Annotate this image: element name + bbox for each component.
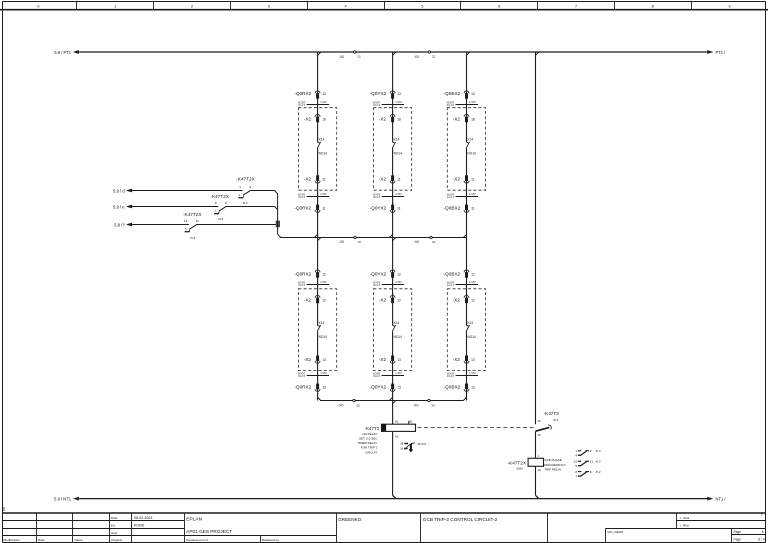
svg-text:5: 5 — [3, 507, 6, 512]
svg-text:Date: Date — [111, 516, 118, 520]
svg-text:/6.3: /6.3 — [553, 418, 558, 422]
svg-text:12: 12 — [322, 272, 326, 276]
svg-text:-Q0YX2: -Q0YX2 — [370, 384, 387, 389]
svg-text:1.5/M: 1.5/M — [395, 280, 402, 284]
svg-text:06-02-2023: 06-02-2023 — [134, 516, 152, 520]
svg-text:AP01 GES PROJECT: AP01 GES PROJECT — [186, 529, 232, 534]
svg-text:11: 11 — [196, 219, 199, 223]
svg-text:EPLAN: EPLAN — [186, 517, 202, 523]
svg-text:12: 12 — [574, 459, 578, 463]
svg-text:13: 13 — [471, 385, 475, 389]
svg-text:Date: Date — [38, 538, 45, 542]
svg-text:-K47T2: -K47T2 — [365, 426, 380, 431]
svg-text:4G1.5: 4G1.5 — [447, 374, 455, 378]
svg-text:DISCREPANCY: DISCREPANCY — [544, 463, 565, 467]
svg-text:-Q0RX2: -Q0RX2 — [294, 205, 311, 210]
svg-text:= GN1: = GN1 — [680, 516, 690, 520]
svg-text:13: 13 — [322, 358, 326, 362]
svg-text:PT1 /: PT1 / — [716, 50, 727, 55]
svg-text:1.5/M: 1.5/M — [469, 371, 476, 375]
svg-text:-X2: -X2 — [379, 116, 387, 121]
svg-text:/6.3: /6.3 — [596, 449, 601, 453]
svg-text:-X0: -X0 — [339, 55, 345, 59]
svg-text:K14: K14 — [319, 138, 325, 142]
svg-text:15 /6.6: 15 /6.6 — [417, 442, 426, 446]
svg-text:23: 23 — [432, 240, 436, 244]
svg-text:13: 13 — [397, 385, 401, 389]
svg-text:5.9 / PT1: 5.9 / PT1 — [54, 50, 71, 55]
svg-text:+ RNx: + RNx — [680, 523, 690, 527]
svg-text:FOR TRIP 2: FOR TRIP 2 — [361, 446, 378, 450]
svg-text:4G1.5: 4G1.5 — [298, 283, 306, 287]
svg-text:Replacement of: Replacement of — [186, 538, 208, 542]
svg-text:1.5/M: 1.5/M — [395, 100, 402, 104]
svg-text:-X2: -X2 — [304, 116, 312, 121]
svg-text:/6.2: /6.2 — [596, 470, 601, 474]
svg-text:Page: Page — [734, 538, 742, 542]
svg-text:1.5/M: 1.5/M — [469, 280, 476, 284]
svg-text:12: 12 — [322, 298, 326, 302]
svg-text:DIC_bla081: DIC_bla081 — [608, 530, 624, 534]
svg-text:11: 11 — [397, 178, 401, 182]
svg-text:18: 18 — [322, 117, 326, 121]
svg-text:13: 13 — [471, 358, 475, 362]
svg-text:-X0: -X0 — [413, 404, 419, 408]
svg-text:-Q0BX2: -Q0BX2 — [444, 205, 461, 210]
svg-text:9: 9 — [225, 201, 227, 205]
svg-text:11: 11 — [471, 178, 475, 182]
svg-text:TIMER RELAY: TIMER RELAY — [358, 441, 378, 445]
svg-text:16: 16 — [537, 433, 541, 437]
svg-text:1.5/M: 1.5/M — [320, 100, 327, 104]
svg-text:-X0: -X0 — [339, 240, 345, 244]
svg-text:-X2: -X2 — [304, 297, 312, 302]
svg-text:K14: K14 — [319, 321, 325, 325]
svg-text:TRIP RELAY: TRIP RELAY — [544, 467, 561, 471]
svg-text:1: 1 — [239, 185, 241, 189]
svg-text:-X2: -X2 — [304, 357, 312, 362]
svg-text:-Q0YX2: -Q0YX2 — [370, 205, 387, 210]
svg-text:4G1.5: 4G1.5 — [373, 195, 381, 199]
svg-text:13: 13 — [397, 92, 401, 96]
svg-text:K14: K14 — [394, 321, 400, 325]
svg-text:-X2: -X2 — [304, 177, 312, 182]
svg-text:/6.6: /6.6 — [190, 236, 195, 240]
svg-text:K14: K14 — [468, 138, 474, 142]
svg-text:13: 13 — [322, 92, 326, 96]
svg-text:/6.6: /6.6 — [243, 201, 248, 205]
svg-text:Page: Page — [734, 530, 742, 534]
svg-text:5.9 / e: 5.9 / e — [113, 204, 125, 209]
svg-text:-K47T2X: -K47T2X — [183, 212, 202, 217]
svg-text:-Q0YX2: -Q0YX2 — [370, 271, 387, 276]
svg-text:-K47T2X: -K47T2X — [508, 460, 527, 465]
svg-text:13: 13 — [397, 358, 401, 362]
svg-text:Ed.: Ed. — [111, 523, 116, 527]
svg-text:-X0: -X0 — [338, 404, 344, 408]
svg-text:1.5/M: 1.5/M — [469, 100, 476, 104]
svg-text:B1: B1 — [409, 419, 413, 423]
svg-text:NO14: NO14 — [394, 335, 403, 339]
svg-text:13: 13 — [471, 92, 475, 96]
svg-text:4G1.5: 4G1.5 — [447, 283, 455, 287]
svg-text:18: 18 — [471, 117, 475, 121]
svg-text:8: 8 — [215, 201, 217, 205]
svg-text:Original: Original — [111, 538, 122, 542]
svg-text:Name: Name — [75, 538, 84, 542]
svg-text:NO14: NO14 — [468, 152, 477, 156]
svg-text:15: 15 — [537, 419, 541, 423]
svg-text:11: 11 — [397, 206, 401, 210]
svg-text:K14: K14 — [468, 321, 474, 325]
svg-text:-X2: -X2 — [453, 297, 461, 302]
svg-text:10: 10 — [537, 468, 541, 472]
svg-text:4G1.5: 4G1.5 — [447, 103, 455, 107]
svg-text:K14: K14 — [394, 138, 400, 142]
svg-text:4G1.5: 4G1.5 — [298, 103, 306, 107]
svg-text:20: 20 — [357, 403, 361, 407]
svg-text:-K47T2: -K47T2 — [544, 411, 560, 416]
svg-text:18: 18 — [400, 442, 404, 446]
svg-text:1.5/M: 1.5/M — [469, 192, 476, 196]
svg-text:-X2: -X2 — [453, 177, 461, 182]
svg-text:-K47T2X: -K47T2X — [210, 194, 229, 199]
svg-text:1.5/M: 1.5/M — [395, 192, 402, 196]
svg-text:18: 18 — [397, 117, 401, 121]
svg-text:A1: A1 — [395, 420, 399, 424]
svg-text:GREENKO: GREENKO — [338, 517, 362, 522]
svg-text:-X2: -X2 — [379, 177, 387, 182]
svg-text:CIRCUIT: CIRCUIT — [365, 450, 377, 454]
svg-text:/6.6: /6.6 — [218, 217, 223, 221]
svg-text:NT1 /: NT1 / — [716, 496, 727, 501]
svg-text:-X2: -X2 — [453, 357, 461, 362]
svg-text:7: 7 — [761, 511, 764, 516]
svg-text:4G1.5: 4G1.5 — [447, 195, 455, 199]
svg-text:-Q0RX2: -Q0RX2 — [294, 384, 311, 389]
svg-text:-Q0BX2: -Q0BX2 — [444, 271, 461, 276]
svg-text:12: 12 — [397, 298, 401, 302]
svg-text:24: 24 — [432, 403, 436, 407]
svg-text:12: 12 — [184, 219, 188, 223]
svg-text:5.9 / d: 5.9 / d — [113, 188, 125, 193]
svg-text:SET: 2.0 SEC: SET: 2.0 SEC — [359, 437, 378, 441]
svg-text:13: 13 — [322, 385, 326, 389]
svg-text:NO14: NO14 — [319, 152, 328, 156]
svg-text:16: 16 — [400, 447, 404, 451]
svg-text:2: 2 — [249, 185, 251, 189]
svg-text:12: 12 — [471, 298, 475, 302]
svg-text:-X0: -X0 — [414, 240, 420, 244]
svg-text:8 / 9: 8 / 9 — [758, 538, 764, 542]
svg-text:Replaced by: Replaced by — [262, 538, 280, 542]
svg-text:A2: A2 — [395, 434, 399, 438]
svg-text:4G1.5: 4G1.5 — [298, 374, 306, 378]
svg-text:-K47T2X: -K47T2X — [236, 176, 255, 181]
svg-text:-X0: -X0 — [414, 55, 420, 59]
svg-text:1.5/M: 1.5/M — [320, 280, 327, 284]
svg-text:19: 19 — [358, 240, 362, 244]
svg-text:NO14: NO14 — [394, 152, 403, 156]
svg-text:GCB TRIP-2 CONTROL CIRCUIT-2: GCB TRIP-2 CONTROL CIRCUIT-2 — [423, 517, 498, 522]
svg-text:NO14: NO14 — [319, 335, 328, 339]
svg-text:21: 21 — [358, 55, 362, 59]
svg-text:-Q0YX2: -Q0YX2 — [370, 91, 387, 96]
svg-text:-X2: -X2 — [379, 357, 387, 362]
svg-text:-Q0RX2: -Q0RX2 — [294, 271, 311, 276]
svg-text:NO14: NO14 — [468, 335, 477, 339]
svg-text:11: 11 — [590, 459, 593, 463]
svg-text:-Q0RX2: -Q0RX2 — [294, 91, 311, 96]
svg-text:Appr.: Appr. — [111, 531, 118, 535]
svg-text:6: 6 — [762, 530, 764, 534]
svg-text:11: 11 — [322, 206, 326, 210]
svg-text:4G1.5: 4G1.5 — [373, 374, 381, 378]
svg-text:GCB PHASE: GCB PHASE — [544, 458, 562, 462]
svg-text:12: 12 — [397, 272, 401, 276]
svg-text:12: 12 — [471, 272, 475, 276]
svg-text:Modification: Modification — [4, 538, 21, 542]
svg-text:220V: 220V — [516, 466, 523, 470]
svg-text:-Q0BX2: -Q0BX2 — [444, 384, 461, 389]
svg-text:11: 11 — [322, 178, 326, 182]
svg-text:4G1.5: 4G1.5 — [373, 283, 381, 287]
svg-text:-Q0BX2: -Q0BX2 — [444, 91, 461, 96]
svg-text:1.5/M: 1.5/M — [320, 192, 327, 196]
svg-text:4G1.5: 4G1.5 — [373, 103, 381, 107]
svg-text:1.5/M: 1.5/M — [320, 371, 327, 375]
svg-text:/6.2: /6.2 — [596, 459, 601, 463]
svg-text:-X2: -X2 — [453, 116, 461, 121]
svg-text:ON DELAY: ON DELAY — [362, 432, 377, 436]
svg-text:11: 11 — [471, 206, 475, 210]
svg-text:5.8 / f: 5.8 / f — [114, 222, 125, 227]
svg-text:-X2: -X2 — [379, 297, 387, 302]
svg-text:22: 22 — [432, 55, 436, 59]
svg-text:1.5/M: 1.5/M — [395, 371, 402, 375]
svg-text:5.9 / NT1: 5.9 / NT1 — [54, 496, 72, 501]
svg-text:4G1.5: 4G1.5 — [298, 195, 306, 199]
svg-text:KOND: KOND — [134, 523, 145, 527]
